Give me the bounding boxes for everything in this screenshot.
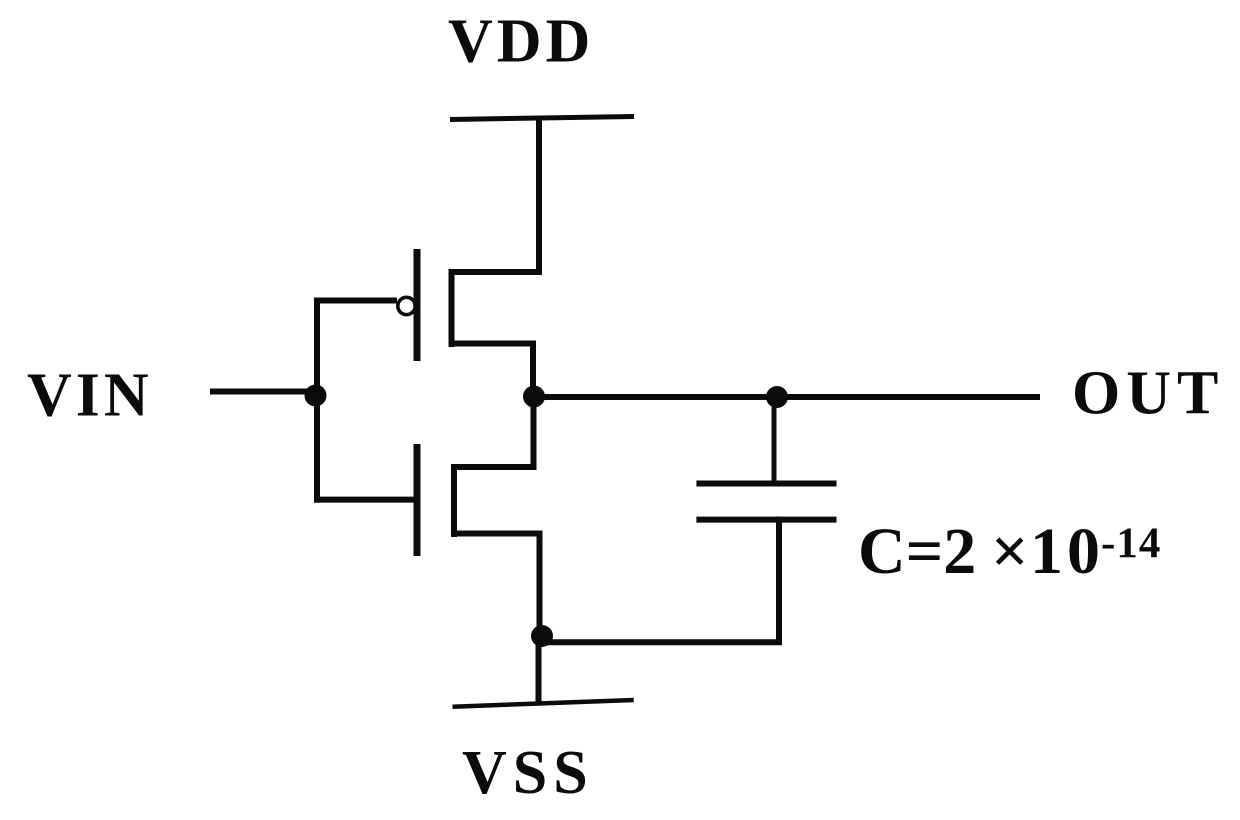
node capacitor tap dot: [766, 386, 788, 408]
capacitor C1 top plate: [696, 481, 836, 487]
svg-text:VSS: VSS: [462, 739, 594, 807]
svg-text:10: 10: [1030, 515, 1104, 588]
node output junction dot: [523, 386, 545, 408]
transistor Q1 PMOS gate bubble: [398, 297, 415, 314]
svg-text:VIN: VIN: [27, 362, 153, 430]
capacitor C1 bottom plate: [696, 517, 836, 523]
node input junction dot: [305, 385, 327, 407]
wire capacitor top lead: [772, 397, 777, 487]
svg-text:C=2: C=2: [858, 515, 976, 588]
svg-text:×: ×: [991, 515, 1029, 588]
wire to PMOS gate: [314, 298, 397, 304]
wire PMOS drain to output node: [530, 341, 536, 398]
svg-text:VDD: VDD: [448, 8, 594, 76]
wire to NMOS gate: [314, 497, 417, 503]
transistor Q1 PMOS channel bar: [449, 269, 455, 347]
transistor Q2 NMOS channel bar: [451, 464, 457, 537]
transistor Q1 PMOS source arm: [449, 269, 543, 275]
transistor Q1 PMOS drain arm: [449, 341, 537, 347]
value label C=2e-14: [858, 515, 1161, 588]
wire NMOS drain to output node: [531, 397, 537, 470]
VDD rail: [450, 117, 634, 120]
transistor Q1 PMOS gate bar: [414, 249, 421, 361]
node VSS junction dot: [531, 625, 553, 647]
wire VSS drop: [536, 633, 542, 703]
wire NMOS source down: [537, 531, 543, 637]
VSS rail: [453, 700, 634, 707]
svg-text:OUT: OUT: [1072, 360, 1224, 428]
wire capacitor bottom lead: [776, 517, 782, 645]
wire VIN lead: [210, 389, 320, 395]
wire VDD to PMOS source: [536, 117, 542, 276]
wire capacitor to VSS node: [542, 639, 782, 645]
transistor Q2 NMOS drain arm: [451, 464, 537, 470]
wire output: [531, 394, 1040, 400]
svg-text:-14: -14: [1101, 520, 1161, 567]
transistor Q2 NMOS gate bar: [414, 444, 421, 556]
transistor Q2 NMOS source arm: [451, 531, 543, 537]
wire input vertical: [314, 298, 320, 503]
